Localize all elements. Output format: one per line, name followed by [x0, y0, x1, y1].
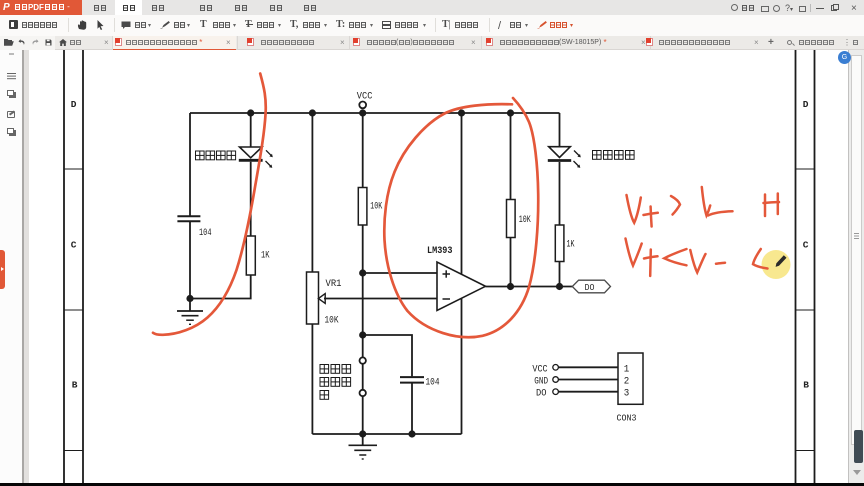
形状 — [498, 20, 510, 30]
pen 高亮 — [160, 21, 170, 29]
handwriting V+ line2 — [626, 239, 642, 266]
svg-text:LM393: LM393 — [427, 246, 453, 257]
wire VCC to CON3 — [558, 366, 618, 368]
svg-text:D: D — [71, 99, 77, 110]
freehand ink annotations — [153, 74, 538, 338]
resistor R3 10K — [507, 200, 531, 238]
annotation loop around comparator — [384, 98, 538, 337]
vibration sensor SW1 terminals — [360, 357, 366, 396]
svg-text:VCC: VCC — [357, 92, 373, 103]
svg-text:3: 3 — [624, 387, 630, 399]
schematic frame right border lines — [796, 50, 815, 483]
node junction C2 at ground rail — [408, 430, 415, 437]
search — [787, 40, 792, 45]
handwriting greater-than — [671, 196, 680, 215]
wire branch to capacitor C2 — [363, 335, 412, 376]
handwriting V- line2 — [690, 250, 705, 273]
svg-text:VCC: VCC — [532, 364, 547, 375]
wire rail to LED D1 — [250, 113, 252, 147]
undo — [18, 39, 25, 46]
ground symbol left — [177, 311, 203, 324]
node junction rail at opamp power — [458, 109, 465, 116]
wire R3 to output — [510, 238, 512, 287]
capacitor C2 104 — [400, 377, 440, 388]
ground symbol bottom — [349, 434, 378, 459]
node junction left ground — [186, 295, 193, 302]
wire rail to R3 — [510, 113, 512, 200]
resistor R4 1K — [555, 225, 574, 262]
T 插入符 — [290, 19, 298, 30]
svg-text:10K: 10K — [325, 316, 339, 327]
svg-text:VR1: VR1 — [326, 279, 342, 290]
T 删除线 — [245, 19, 252, 30]
wire capacitor to ground junction — [189, 221, 191, 311]
wire LED to R1 — [250, 162, 252, 236]
svg-text:1K: 1K — [567, 240, 575, 251]
插入文字 — [442, 19, 451, 30]
menu — [115, 0, 142, 15]
svg-text:C: C — [803, 240, 809, 251]
svg-text:1: 1 — [624, 363, 630, 375]
wire VCC top rail — [190, 112, 560, 114]
cursor — [96, 20, 105, 30]
wire DO to CON3 — [558, 391, 618, 393]
pen icon — [7, 111, 15, 118]
svg-text:10K: 10K — [519, 215, 531, 226]
svg-text:B: B — [803, 380, 809, 391]
wire left branch down — [189, 113, 191, 216]
cursor highlight yellow circle — [762, 250, 791, 279]
node junction rail at VCC — [359, 109, 366, 116]
connector CON3 pin circles — [553, 365, 559, 395]
tab 5 — [486, 38, 493, 46]
tab 4 — [353, 38, 360, 46]
svg-text:GND: GND — [534, 376, 548, 387]
handwriting less-than — [664, 249, 686, 265]
wire sensor to ground rail — [362, 396, 364, 434]
VCC power symbol — [357, 92, 373, 109]
annotation left curve — [153, 74, 266, 335]
handwriting L angle — [753, 249, 768, 269]
wire rail to R2 — [362, 113, 364, 188]
active tab — [113, 36, 236, 51]
resistor R2 10K — [358, 188, 382, 226]
wire rail to VR1 — [311, 113, 313, 272]
sidebar — [0, 50, 22, 483]
super annotate mode icon — [9, 20, 18, 29]
svg-text:10K: 10K — [370, 202, 382, 213]
node junction capacitor branch tap — [359, 331, 366, 338]
scrollbar — [848, 50, 864, 483]
node junction rail at LED column — [247, 109, 254, 116]
svg-text:D: D — [803, 99, 809, 110]
save — [45, 39, 52, 46]
wire GND to CON3 — [558, 379, 618, 381]
svg-text:DO: DO — [536, 388, 547, 399]
handwriting V+ line1 — [627, 195, 641, 223]
wire R1 to ground junction — [190, 275, 251, 299]
svg-text:1K: 1K — [261, 251, 270, 262]
wire C2 to ground rail — [411, 383, 413, 434]
node junction sensor at ground rail — [359, 430, 366, 437]
label 电源指示 — [196, 151, 236, 160]
node junction R4 output — [556, 283, 563, 290]
svg-text:B: B — [72, 380, 78, 391]
capacitor C1 104 — [177, 216, 211, 239]
pages icon — [7, 90, 14, 96]
LED D1 power indicator — [239, 147, 273, 168]
svg-text:DO: DO — [585, 283, 595, 293]
connector CON3 pin labels — [532, 364, 548, 399]
T 下划线 — [200, 19, 207, 30]
label 开关指示 — [593, 151, 635, 160]
hand — [77, 20, 88, 30]
pencil cursor — [776, 255, 787, 267]
orange side handle — [0, 250, 5, 289]
node junction rail at right 10K — [507, 109, 514, 116]
wire opamp output — [486, 286, 573, 288]
svg-text:2: 2 — [624, 375, 630, 387]
svg-text:C: C — [71, 240, 77, 251]
redo — [32, 39, 39, 46]
label 常闭震动传感器 — [320, 365, 351, 400]
list icon — [7, 73, 16, 74]
tab 3 — [247, 38, 254, 46]
wire opamp power vertical — [461, 113, 463, 434]
net tag DO — [572, 280, 610, 293]
wire bottom ground rail — [312, 433, 461, 435]
node junction rail at pot column — [309, 109, 316, 116]
blue floating btn — [838, 51, 851, 64]
node junction plus input tap — [359, 269, 366, 276]
svg-text:104: 104 — [426, 378, 440, 389]
home tab — [59, 39, 67, 46]
op-amp U1 LM393 — [427, 246, 486, 311]
folder open icon — [4, 39, 14, 46]
wire R2 to sensor — [362, 225, 364, 357]
wire R4 to output — [559, 262, 561, 287]
随意画 (active, orange) — [537, 21, 547, 29]
bubble 注解 — [121, 21, 131, 30]
schematic frame left border lines — [64, 50, 83, 483]
handwriting H — [764, 195, 767, 217]
svg-text:104: 104 — [199, 228, 212, 239]
wire VR1 bottom to ground rail — [311, 324, 313, 434]
resistor R1 1K — [246, 236, 269, 275]
node junction R3 output — [507, 283, 514, 290]
区域高亮 — [382, 21, 391, 29]
potentiometer VR1 10K — [307, 272, 342, 327]
right window controls — [731, 4, 738, 11]
handwriting V- line1 — [702, 187, 710, 216]
T 替换符 — [336, 19, 345, 30]
tab 6 — [646, 38, 653, 46]
connector CON3 body — [617, 353, 644, 424]
wire rail corner to LED D2 — [559, 113, 561, 147]
wire VR1 wiper to opamp inverting input — [324, 298, 437, 300]
wire LED D2 to R4 — [559, 162, 561, 225]
wire to opamp non-inverting input — [363, 272, 437, 274]
LED D2 switch indicator — [548, 147, 581, 168]
copy icon — [7, 128, 14, 134]
svg-text:CON3: CON3 — [617, 413, 637, 424]
